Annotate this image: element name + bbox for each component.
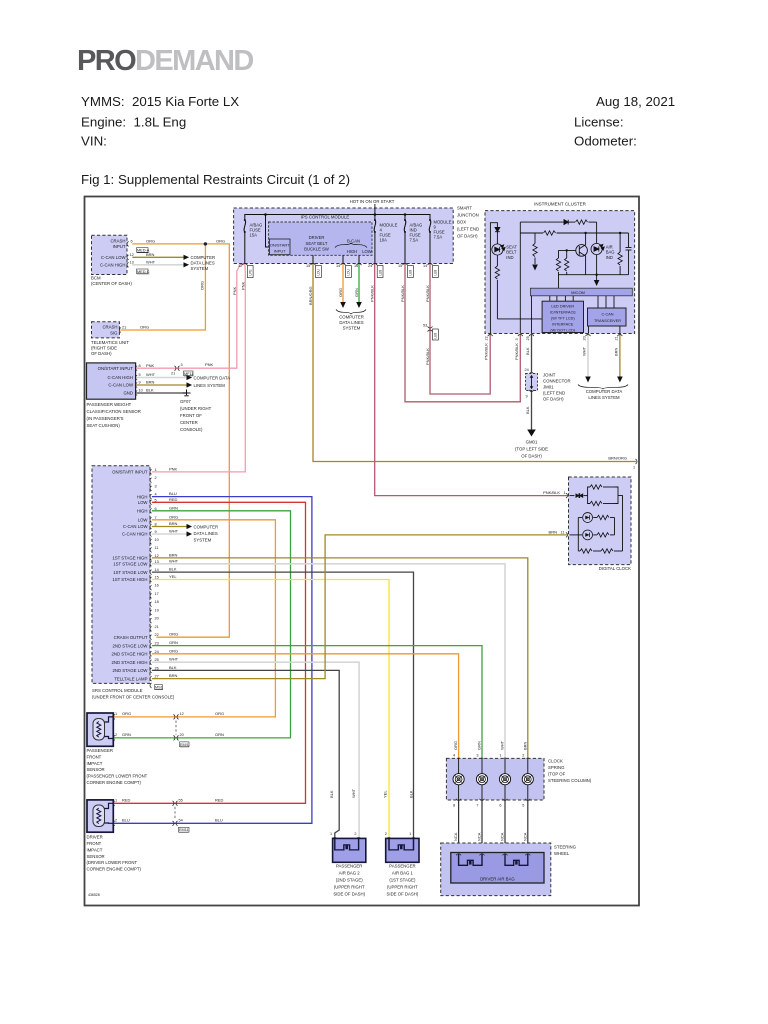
svg-text:GRN: GRN — [354, 288, 359, 297]
svg-text:8: 8 — [139, 364, 141, 368]
svg-text:13: 13 — [155, 560, 159, 564]
wire YEL: SRS pin 15 right, down to passenger air bag 1 pin 2 — [153, 580, 390, 838]
svg-text:VIN:: VIN: — [81, 134, 107, 149]
svg-text:(1ST STAGE): (1ST STAGE) — [389, 877, 416, 882]
LED seat belt ind — [492, 244, 505, 255]
svg-text:1: 1 — [330, 832, 332, 836]
resistor right of lower LED — [597, 533, 609, 537]
svg-text:7: 7 — [476, 804, 478, 808]
svg-text:YMMS: 2015 Kia Forte LX: YMMS: 2015 Kia Forte LX — [81, 94, 239, 109]
LED driver box — [542, 301, 583, 332]
svg-text:(RIGHT SIDE: (RIGHT SIDE — [91, 346, 117, 351]
svg-text:10A: 10A — [380, 238, 388, 243]
svg-text:GRN: GRN — [215, 732, 224, 737]
wire RED: SRS pin 5 right, down, to driver impact sensor pin 1 via EM11 — [113, 502, 305, 803]
wire BLK: SRS pin 14 right, down to passenger air bag 1 pin 1 — [153, 572, 414, 837]
svg-text:BAG: BAG — [606, 250, 615, 255]
wire WHT: BCM C-CAN high pin 13 to data-lines arrow — [133, 264, 183, 266]
svg-text:BLU: BLU — [215, 817, 223, 822]
svg-text:1: 1 — [633, 466, 635, 470]
svg-text:PNK/BLK: PNK/BLK — [484, 343, 489, 360]
svg-text:INTERFACE: INTERFACE — [552, 322, 574, 326]
svg-text:COMPUTER: COMPUTER — [191, 255, 216, 260]
wire BLK: clock spring pin 6 down to driver air bag — [504, 800, 506, 854]
svg-text:3: 3 — [155, 484, 157, 488]
svg-text:LE8: LE8 — [434, 270, 438, 276]
wire ORG: junction down to telematics crash sig pin 21 — [121, 244, 205, 330]
diode on top rail — [564, 220, 568, 225]
svg-text:2: 2 — [155, 476, 157, 480]
svg-text:2ND STAGE HIGH: 2ND STAGE HIGH — [112, 660, 148, 665]
svg-text:13: 13 — [130, 261, 134, 265]
svg-text:PASSENGER: PASSENGER — [87, 748, 113, 753]
connector EM/1 lower — [173, 736, 175, 741]
pins on driver air bag — [456, 854, 461, 856]
svg-text:C-CAN HIGH: C-CAN HIGH — [122, 532, 148, 537]
transistor — [576, 245, 588, 257]
svg-text:WHT: WHT — [351, 788, 356, 798]
wire BRN: cluster pin 21 down to arrow — [619, 335, 621, 376]
svg-text:24: 24 — [155, 650, 159, 654]
bottom series resistors — [578, 550, 580, 552]
svg-text:SMART: SMART — [457, 206, 472, 211]
svg-text:PNK/BLK: PNK/BLK — [425, 285, 430, 302]
brace under cluster data arrows — [578, 385, 628, 389]
svg-text:9: 9 — [139, 381, 141, 385]
svg-text:21: 21 — [615, 336, 619, 340]
base resistors — [558, 250, 560, 258]
svg-text:JUNCTION: JUNCTION — [457, 213, 479, 218]
svg-text:14: 14 — [155, 568, 159, 572]
LED lamp lower — [583, 530, 593, 540]
svg-text:STEERING: STEERING — [554, 845, 577, 850]
svg-text:ORG: ORG — [169, 648, 178, 653]
pin 1 — [113, 801, 115, 806]
svg-text:Aug 18, 2021: Aug 18, 2021 — [596, 94, 675, 109]
resistor on second rail — [544, 231, 556, 235]
svg-text:11: 11 — [561, 530, 565, 534]
resistor top loop lower — [590, 501, 602, 505]
svg-text:C-CAN LOW: C-CAN LOW — [108, 383, 134, 388]
wire GRN: IPS b-can low pin 16 down to arrow — [358, 264, 360, 303]
svg-text:AIR: AIR — [606, 244, 613, 249]
wire BRN: SRS pin 8 to arrow — [153, 526, 187, 528]
coil 4 — [458, 758, 460, 800]
svg-text:SIDE OF DASH): SIDE OF DASH) — [387, 891, 419, 896]
pin 20 bottom of cluster — [586, 335, 591, 337]
svg-text:19: 19 — [155, 608, 159, 612]
svg-text:WHT: WHT — [146, 372, 156, 377]
pin 2 — [356, 838, 361, 840]
svg-text:NCA: NCA — [477, 832, 482, 841]
svg-text:FRONT OF: FRONT OF — [180, 413, 202, 418]
wire BLK: clock spring pin 8 down to driver air bag — [458, 800, 460, 854]
arrow BRN down — [617, 377, 623, 383]
pin 21 bottom of cluster — [618, 335, 623, 337]
svg-text:CRASH: CRASH — [110, 239, 125, 244]
pin 22 bottom of cluster — [488, 335, 493, 337]
node dots cluster — [584, 232, 586, 234]
svg-text:TRANSCEIVER: TRANSCEIVER — [594, 319, 621, 323]
svg-text:PASSENGER: PASSENGER — [389, 863, 415, 868]
parallel resistor loop top — [588, 487, 590, 496]
svg-text:ON/START INPUT: ON/START INPUT — [98, 366, 134, 371]
transistor base rail — [559, 249, 576, 251]
svg-text:(TOP LEFT SIDE: (TOP LEFT SIDE — [515, 447, 548, 452]
pin 1 — [332, 838, 337, 840]
svg-text:BLU: BLU — [169, 491, 177, 496]
svg-text:BRN: BRN — [169, 673, 178, 678]
svg-text:3: 3 — [515, 338, 519, 340]
svg-text:DIGITAL CLOCK: DIGITAL CLOCK — [599, 566, 631, 571]
connector EM/1 upper — [173, 715, 175, 720]
svg-text:SYSTEM: SYSTEM — [194, 538, 212, 543]
svg-text:(UPPER RIGHT: (UPPER RIGHT — [334, 884, 365, 889]
svg-text:1: 1 — [115, 712, 117, 716]
svg-text:COMPUTER DATA: COMPUTER DATA — [194, 375, 231, 380]
pin 11 — [566, 533, 568, 538]
svg-text:IMPACT: IMPACT — [87, 761, 103, 766]
svg-text:24: 24 — [368, 264, 372, 268]
svg-text:2: 2 — [522, 754, 524, 758]
svg-text:18: 18 — [155, 600, 159, 604]
svg-text:9: 9 — [526, 395, 528, 399]
svg-text:C-CAN HIGH: C-CAN HIGH — [107, 375, 133, 380]
svg-text:OF DASH): OF DASH) — [457, 234, 478, 239]
branch: dimmer resistor and arrow — [534, 233, 536, 244]
pin 9 — [529, 390, 534, 392]
svg-text:(IN PASSENGER'S: (IN PASSENGER'S — [87, 416, 124, 421]
svg-text:HIGH: HIGH — [137, 509, 148, 514]
svg-text:CENTER: CENTER — [180, 420, 198, 425]
svg-text:9: 9 — [155, 530, 157, 534]
capacitor column — [628, 233, 630, 248]
svg-text:YEL: YEL — [169, 574, 177, 579]
svg-text:20: 20 — [180, 733, 184, 737]
svg-text:TELLTALE LAMP: TELLTALE LAMP — [114, 676, 147, 681]
joint connector JM01 box — [526, 374, 538, 391]
svg-text:JOINT: JOINT — [543, 373, 556, 378]
svg-text:CONSOLE): CONSOLE) — [180, 427, 203, 432]
svg-text:25: 25 — [155, 658, 159, 662]
svg-text:2: 2 — [385, 832, 387, 836]
svg-text:16: 16 — [354, 264, 358, 268]
svg-text:BRN/ORG: BRN/ORG — [308, 286, 313, 305]
svg-text:2: 2 — [115, 733, 117, 737]
svg-text:BRN: BRN — [146, 380, 155, 385]
svg-text:1: 1 — [115, 798, 117, 802]
svg-text:NCA: NCA — [500, 832, 505, 841]
wire PNK/BLK: SJB a/bag ind fuse pin 15 down, U-turn up to cluster pin 3 — [405, 264, 520, 402]
svg-text:27: 27 — [155, 675, 159, 679]
svg-text:Fig 1: Supplemental Restraints: Fig 1: Supplemental Restraints Circuit (… — [81, 172, 350, 187]
svg-text:8: 8 — [155, 523, 157, 527]
svg-text:(CENTER OF DASH): (CENTER OF DASH) — [91, 281, 132, 286]
driver front impact sensor box — [87, 800, 113, 832]
svg-text:12: 12 — [155, 554, 159, 558]
svg-text:436528: 436528 — [88, 893, 100, 897]
svg-text:BOX: BOX — [457, 220, 466, 225]
svg-text:LPE: LPE — [249, 269, 253, 275]
svg-text:4: 4 — [155, 493, 157, 497]
svg-text:5: 5 — [139, 373, 141, 377]
squib left — [459, 854, 482, 866]
svg-text:ORG: ORG — [215, 711, 224, 716]
wire BLK: SRS pin 26 right, down to passenger air bag 2 pin 1 — [153, 670, 340, 837]
second rail — [520, 232, 543, 234]
wire WHT: cluster pin 20 down to arrow — [587, 335, 589, 376]
svg-text:CRASH OUTPUT: CRASH OUTPUT — [114, 635, 148, 640]
svg-text:PNK: PNK — [146, 363, 155, 368]
svg-text:12: 12 — [180, 712, 184, 716]
svg-text:7.5A: 7.5A — [434, 235, 443, 240]
svg-text:PNK/BLK: PNK/BLK — [543, 490, 560, 495]
arrow lines system (BRN) — [187, 382, 193, 387]
connector 53 on pnk/blk wire — [428, 326, 433, 328]
wire buckle sw down — [312, 255, 314, 263]
wire ORG: SRS pin 7 right, down, to passenger impact sensor pin 1 via EM/1 — [113, 520, 275, 717]
pin 1 — [113, 715, 115, 720]
svg-text:LOW: LOW — [138, 518, 149, 523]
svg-text:24: 24 — [525, 368, 529, 372]
sub-box ON/START INPUT — [269, 239, 290, 255]
svg-text:CONNECTOR: CONNECTOR — [543, 379, 571, 384]
svg-text:ORG: ORG — [146, 239, 155, 244]
svg-text:ORG: ORG — [216, 239, 225, 244]
svg-text:1: 1 — [499, 754, 501, 758]
passenger air bag 2 box — [333, 838, 366, 862]
svg-text:STEERING COLUMN): STEERING COLUMN) — [548, 778, 592, 783]
svg-text:17: 17 — [155, 592, 159, 596]
svg-text:WHEEL: WHEEL — [554, 851, 570, 856]
svg-text:15A: 15A — [250, 233, 258, 238]
pin 12 at box bottom — [242, 264, 247, 266]
arrow WHT pin 9 — [187, 531, 193, 536]
wire BLU: SRS pin 4 right, down, to driver impact sensor pin 2 via EM11 — [113, 497, 312, 824]
svg-text:MS1: MS1 — [155, 686, 163, 690]
svg-text:MODULE: MODULE — [380, 223, 398, 228]
svg-text:SIDE OF DASH): SIDE OF DASH) — [333, 891, 365, 896]
ground GF07 — [183, 390, 191, 396]
arrow WHT down — [585, 377, 591, 383]
svg-text:C-CAN HIGH: C-CAN HIGH — [100, 263, 126, 268]
svg-text:8: 8 — [453, 804, 455, 808]
svg-text:BLK: BLK — [169, 567, 177, 572]
svg-text:ON/START INPUT: ON/START INPUT — [112, 470, 148, 475]
bottom rail — [559, 274, 629, 276]
svg-text:(UNDER RIGHT: (UNDER RIGHT — [180, 406, 212, 411]
svg-text:22: 22 — [155, 633, 159, 637]
IPS control module box — [234, 208, 454, 264]
wire: top rail — [520, 221, 563, 223]
pin 9 — [136, 383, 138, 388]
svg-text:MF11: MF11 — [184, 372, 193, 376]
connector MF11 on PNK wire — [174, 366, 176, 371]
svg-text:DATA LINES: DATA LINES — [194, 531, 218, 536]
resistor on top rail — [576, 220, 588, 224]
svg-text:COMPUTER DATA: COMPUTER DATA — [586, 389, 623, 394]
svg-text:GRN: GRN — [169, 640, 178, 645]
svg-text:1: 1 — [409, 832, 411, 836]
svg-text:PRODEMAND: PRODEMAND — [77, 45, 253, 77]
svg-text:(W/ TFT LCD): (W/ TFT LCD) — [551, 316, 575, 320]
BCM module box — [92, 235, 128, 274]
pin 13 — [127, 262, 129, 267]
wire GRN: SRS pin 23 right, down to clock spring pin 3 — [153, 646, 483, 757]
pin 3 bottom of cluster — [518, 335, 523, 337]
svg-text:EM11: EM11 — [179, 828, 189, 832]
svg-text:GRN: GRN — [122, 732, 131, 737]
svg-text:WHT: WHT — [169, 529, 179, 534]
svg-text:(TOP OF: (TOP OF — [548, 772, 566, 777]
svg-text:SPRING: SPRING — [548, 765, 565, 770]
svg-text:BRN: BRN — [549, 529, 558, 534]
svg-text:21: 21 — [155, 625, 159, 629]
svg-text:CORNER ENGINE COMPT): CORNER ENGINE COMPT) — [87, 867, 142, 872]
svg-text:(2ND STAGE): (2ND STAGE) — [336, 877, 363, 882]
svg-text:RED: RED — [122, 797, 131, 802]
svg-text:7: 7 — [155, 516, 157, 520]
svg-text:B-CAN: B-CAN — [347, 238, 360, 243]
instrument cluster box — [485, 211, 635, 334]
node bus junction dots — [264, 213, 267, 216]
wire PNK: IPS pin 12 down to SRS pin 1 — [153, 264, 246, 472]
svg-text:BLK: BLK — [525, 347, 530, 355]
svg-text:5: 5 — [522, 804, 524, 808]
svg-text:BCM: BCM — [91, 276, 101, 281]
svg-text:54: 54 — [179, 818, 183, 822]
svg-text:PNK: PNK — [169, 466, 178, 471]
svg-text:FRONT: FRONT — [87, 841, 102, 846]
pin numbers — [155, 468, 159, 679]
stubs MICOM to LED driver — [532, 296, 620, 334]
svg-text:2ND STAGE LOW: 2ND STAGE LOW — [112, 668, 148, 673]
svg-text:PNK: PNK — [205, 362, 214, 367]
svg-text:C-CAN LOW: C-CAN LOW — [123, 524, 149, 529]
svg-text:YEL: YEL — [382, 790, 387, 798]
svg-text:4: 4 — [453, 754, 455, 758]
wire into clock pin 1 — [570, 495, 575, 497]
pin 2 — [113, 821, 115, 826]
svg-text:16: 16 — [155, 584, 159, 588]
resistor right of upper LED — [597, 515, 609, 519]
squib — [335, 838, 359, 850]
svg-text:15: 15 — [398, 264, 402, 268]
svg-text:CRASH: CRASH — [102, 325, 117, 330]
svg-text:7.5A: 7.5A — [410, 238, 419, 243]
svg-text:(W/ DOT LCD): (W/ DOT LCD) — [550, 328, 576, 332]
svg-text:1: 1 — [564, 491, 566, 495]
svg-text:DATA LINES: DATA LINES — [191, 261, 215, 266]
svg-text:12: 12 — [130, 253, 134, 257]
wire ORG: IPS b-can high pin 14 down to arrow — [342, 264, 344, 303]
arrow ORG to computer data lines — [340, 302, 346, 308]
svg-text:BUCKLE SW: BUCKLE SW — [304, 247, 329, 252]
arrow GRN to computer data lines — [356, 302, 362, 308]
svg-text:LE8: LE8 — [434, 333, 438, 339]
wire BLK: clock spring pin 5 down to driver air bag — [527, 800, 529, 854]
diode seat belt — [495, 228, 500, 232]
pin 1 — [411, 838, 416, 840]
pin 1 at border — [635, 459, 637, 464]
svg-text:NCA: NCA — [453, 832, 458, 841]
svg-text:DRIVER AIR BAG: DRIVER AIR BAG — [480, 877, 515, 882]
svg-text:DRIVER: DRIVER — [309, 235, 325, 240]
svg-text:20: 20 — [155, 617, 159, 621]
arrow BRN pin 8 — [187, 524, 193, 529]
pin 21 — [119, 328, 121, 333]
svg-text:BRN: BRN — [614, 347, 619, 356]
ground GM01 — [527, 430, 536, 437]
svg-text:12: 12 — [238, 264, 242, 268]
bottom pins — [456, 799, 461, 801]
svg-text:ORG: ORG — [140, 325, 149, 330]
pin 15 (SJB) at box bottom — [403, 264, 408, 266]
svg-text:COMPUTER: COMPUTER — [339, 315, 364, 320]
svg-text:JM01: JM01 — [543, 385, 554, 390]
svg-text:15: 15 — [306, 264, 310, 268]
svg-text:ORG: ORG — [200, 281, 205, 290]
svg-text:PASSENGER WEIGHT: PASSENGER WEIGHT — [87, 402, 132, 407]
svg-text:COMPUTER: COMPUTER — [194, 524, 219, 529]
pin 24 at box bottom — [372, 264, 377, 266]
pin 5 — [136, 375, 138, 380]
pin labels inside — [112, 470, 149, 682]
svg-text:10: 10 — [139, 389, 143, 393]
svg-text:20: 20 — [583, 336, 587, 340]
svg-text:5: 5 — [155, 498, 157, 502]
wire BRN: SRS pin 27 right, up, right to digital clock pin 11 — [153, 535, 567, 679]
wire BLK: cluster pin 25 down to joint connector JM01 — [531, 335, 533, 372]
svg-text:BLK: BLK — [525, 406, 530, 414]
svg-text:SENSOR: SENSOR — [87, 854, 105, 859]
pin 6 — [127, 242, 129, 247]
svg-text:LE8: LE8 — [409, 270, 413, 276]
svg-text:GF07: GF07 — [180, 399, 191, 404]
wire PNK/BLK: IPS pin 24 down then right to digital clock pin 1 — [375, 264, 567, 496]
svg-text:Engine: 1.8L Eng: Engine: 1.8L Eng — [81, 115, 186, 130]
squib — [389, 838, 413, 850]
svg-text:1ST STAGE HIGH: 1ST STAGE HIGH — [112, 577, 147, 582]
svg-text:1ST STAGE LOW: 1ST STAGE LOW — [113, 570, 148, 575]
pin 24 — [529, 373, 534, 375]
svg-text:SYSTEM: SYSTEM — [343, 326, 361, 331]
svg-text:(UPPER RIGHT: (UPPER RIGHT — [387, 884, 418, 889]
node: ORG junction dot — [204, 242, 207, 245]
wire PNK: passenger weight sensor pin 8 via MF11 up to IPS pin 12 — [137, 264, 245, 369]
svg-text:INPUT: INPUT — [113, 244, 126, 249]
passenger weight classification sensor box — [87, 363, 136, 399]
svg-text:BELT: BELT — [506, 250, 517, 255]
svg-text:SENSOR: SENSOR — [87, 767, 105, 772]
svg-text:Odometer:: Odometer: — [574, 134, 637, 149]
fuse A/BAG FUSE 15A — [244, 219, 246, 233]
wire ORG: BCM crash input pin 6 to junction and down to SRS pin 22 — [133, 244, 229, 637]
pin 1 — [566, 493, 568, 498]
svg-text:ORG: ORG — [122, 711, 131, 716]
svg-text:HOT IN ON OR START: HOT IN ON OR START — [350, 199, 395, 204]
svg-text:BRN: BRN — [146, 252, 155, 257]
svg-text:(LEFT END: (LEFT END — [543, 391, 565, 396]
svg-text:1: 1 — [155, 468, 157, 472]
resistor below seat belt LED — [495, 266, 499, 279]
svg-text:10: 10 — [155, 538, 159, 542]
pin 14 at box bottom — [341, 264, 346, 266]
pin 3 — [480, 758, 485, 760]
pin 25 bottom of cluster — [529, 335, 534, 337]
svg-text:LINES SYSTEM: LINES SYSTEM — [588, 395, 620, 400]
svg-text:2: 2 — [354, 832, 356, 836]
